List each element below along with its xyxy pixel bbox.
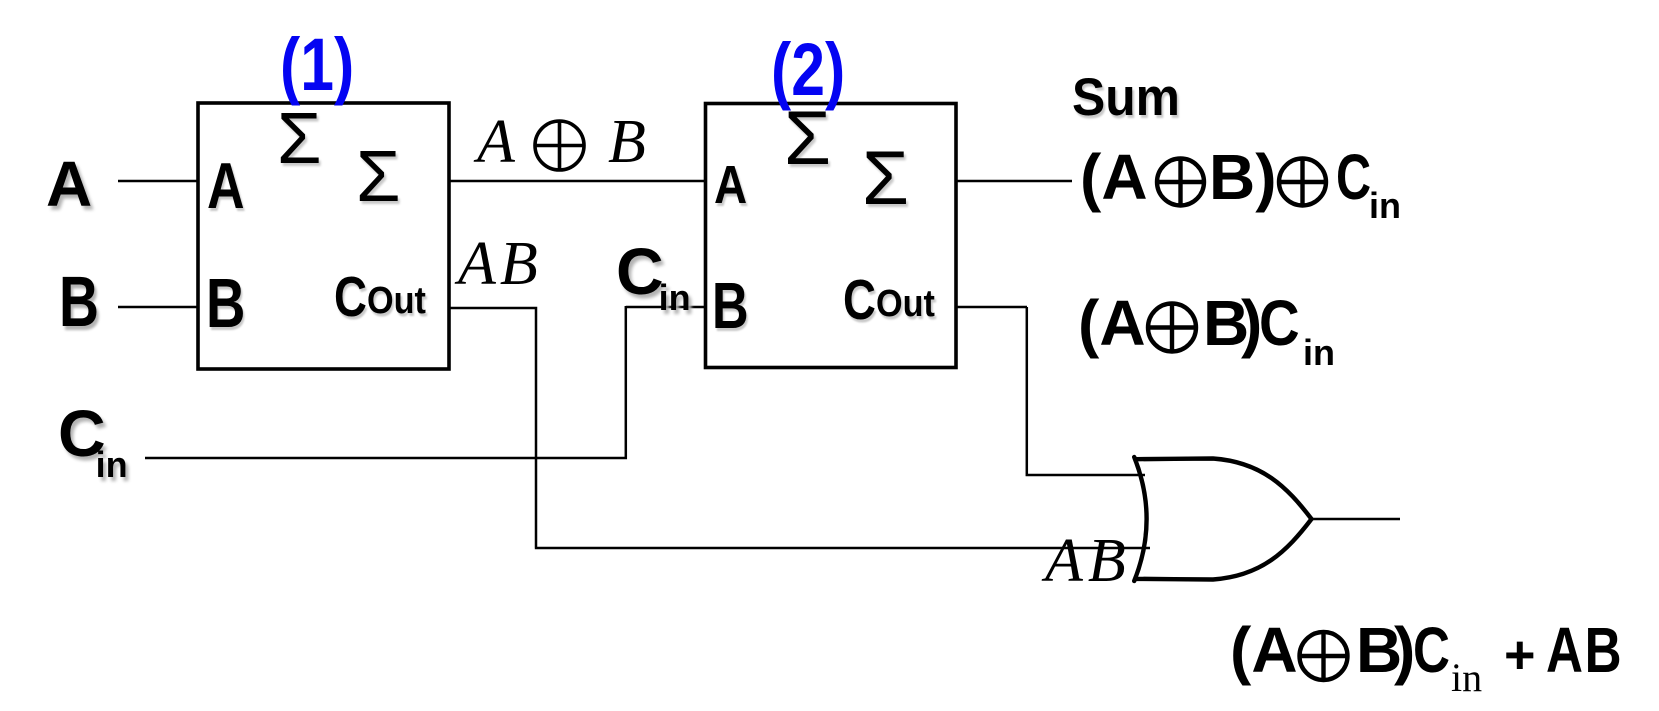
box2 pin label Cout — [843, 272, 942, 329]
box1 pin label B — [206, 268, 245, 338]
oplus 1 in (A⊕B)⊕Cin sum expression — [1157, 159, 1204, 206]
half adder U2 box — [706, 104, 957, 368]
OR gate U3 — [1134, 457, 1311, 581]
box2 pin label B — [712, 273, 749, 338]
input label A — [46, 152, 92, 216]
oplus 2 in (A⊕B)⊕Cin sum expression — [1279, 159, 1326, 206]
node label Cin at box2 B input — [616, 238, 691, 316]
box1 pin label A — [207, 153, 245, 218]
node label A xor B (serif math) — [477, 111, 515, 173]
box2 pin label A — [714, 158, 747, 212]
oplus in (A⊕B)Cin expression — [1148, 304, 1196, 352]
expression (A xor B)Cin + AB : OR output — [1230, 618, 1298, 682]
node label AB (OR input) — [1045, 530, 1131, 592]
box2 sigma top — [784, 101, 831, 177]
expression (A xor B) xor Cin : Sum output — [1080, 145, 1148, 209]
wire Cin input : right, up, right to box2 B input — [145, 306, 707, 459]
wire node AB : box1 Cout right-down-right to OR gate lower input — [449, 307, 1150, 548]
oplus in label A⊕B — [535, 121, 584, 170]
label Sum — [1072, 71, 1180, 124]
oplus in bottom expression — [1300, 632, 1348, 680]
blue label (1) — [280, 28, 354, 102]
wire A input — [118, 180, 198, 183]
wire box2 sum output — [955, 180, 1072, 183]
wire OR gate output — [1310, 518, 1400, 521]
blue label (2) — [771, 33, 845, 107]
half adder U1 box — [198, 103, 449, 369]
box1 sigma top — [277, 103, 322, 175]
box1 pin label Cout — [334, 269, 433, 326]
wire node A⊕B : box1 sum out to box2 A in — [449, 180, 707, 183]
input label B — [59, 267, 99, 338]
box1 sigma output — [356, 141, 401, 213]
node label AB (box1 carry) — [458, 233, 542, 295]
wire box2 Cout right-down-right to OR gate upper input — [955, 307, 1145, 476]
box2 sigma output — [862, 141, 909, 217]
input label Cin — [58, 400, 128, 483]
expression (A xor B)Cin : carry of box2 — [1078, 291, 1146, 355]
wire B input — [118, 306, 198, 309]
